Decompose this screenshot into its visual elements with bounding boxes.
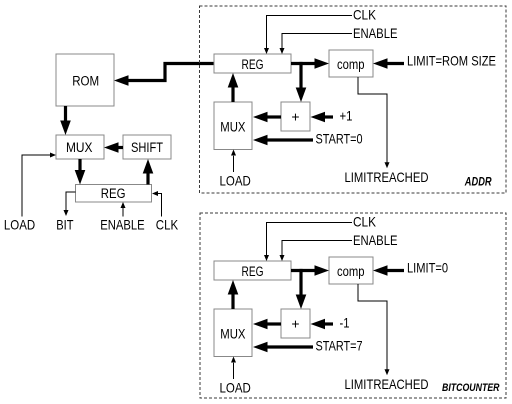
wire: ROM data out down to MUX xyxy=(60,106,71,135)
wire: -1 constant into adder xyxy=(311,319,334,330)
wire: LOAD input to MUX select xyxy=(22,153,56,217)
MUX box (BITCOUNTER source select) xyxy=(214,309,252,357)
ADDR module dashed boundary xyxy=(200,6,507,193)
MUX box (ADDR source select) xyxy=(214,102,252,150)
svg-text:SHIFT: SHIFT xyxy=(131,140,163,155)
wire: ADDR MUX out up to REG xyxy=(228,73,239,102)
REG box (shift register) xyxy=(76,185,152,203)
BITCOUNTER module dashed boundary xyxy=(200,213,506,398)
svg-text:START=7: START=7 xyxy=(316,338,363,354)
svg-text:REG: REG xyxy=(242,57,264,72)
svg-text:MUX: MUX xyxy=(220,120,245,135)
svg-text:LOAD: LOAD xyxy=(4,217,35,233)
wire: SHIFT out to MUX input xyxy=(104,142,123,153)
wire: BITCOUNTER comp out to LIMITREACHED xyxy=(358,284,390,375)
MUX box (shifter input select) xyxy=(56,135,104,159)
wire: LOAD to BITCOUNTER MUX select xyxy=(231,357,236,380)
svg-text:ROM: ROM xyxy=(72,74,99,89)
comp box (ADDR comparator) xyxy=(329,50,373,77)
svg-text:ENABLE: ENABLE xyxy=(353,25,398,41)
svg-text:BIT: BIT xyxy=(56,217,74,233)
svg-text:REG: REG xyxy=(101,186,126,201)
svg-text:BITCOUNTER: BITCOUNTER xyxy=(442,382,500,394)
wire: ENABLE input up to REG xyxy=(121,202,126,217)
wire: REG feedback up to SHIFT xyxy=(143,159,154,185)
wire: adder out to BITCOUNTER MUX xyxy=(253,319,281,330)
ROM box xyxy=(56,54,114,106)
svg-text:START=0: START=0 xyxy=(316,131,363,147)
wire: START=7 constant into BITCOUNTER MUX xyxy=(253,342,313,353)
adder box + (BITCOUNTER) xyxy=(281,309,310,338)
svg-text:CLK: CLK xyxy=(353,213,377,229)
wire: BITCOUNTER bus branch down to adder xyxy=(296,269,307,309)
wire: +1 constant into adder xyxy=(311,112,334,123)
wire: BITCOUNTER REG out to comp xyxy=(291,265,329,276)
wire: ENABLE to ADDR REG xyxy=(280,34,353,55)
svg-text:LIMITREACHED: LIMITREACHED xyxy=(345,169,429,185)
wire: ENABLE to BITCOUNTER REG xyxy=(280,241,353,262)
svg-text:LIMIT=0: LIMIT=0 xyxy=(407,260,448,276)
comp box (BITCOUNTER comparator) xyxy=(329,257,373,284)
wire: ADDR REG output to ROM address input xyxy=(114,64,214,86)
wire: ADDR REG out to comp xyxy=(291,58,329,69)
wire: adder out to ADDR MUX xyxy=(253,112,281,123)
REG box (BITCOUNTER register) xyxy=(214,261,291,280)
wire: CLK input to REG xyxy=(152,191,162,217)
svg-text:comp: comp xyxy=(337,264,365,279)
wire: LIMIT=ROM SIZE constant into comp xyxy=(373,58,404,69)
wire: REG to BIT output xyxy=(64,192,76,216)
wire: LOAD to ADDR MUX select xyxy=(231,150,236,173)
svg-text:comp: comp xyxy=(337,57,365,72)
svg-text:ENABLE: ENABLE xyxy=(353,232,398,248)
svg-text:LIMITREACHED: LIMITREACHED xyxy=(345,376,429,392)
svg-text:+1: +1 xyxy=(340,108,353,124)
adder box + (ADDR) xyxy=(281,102,310,131)
svg-text:ENABLE: ENABLE xyxy=(100,217,145,233)
svg-text:CLK: CLK xyxy=(156,217,179,233)
REG box (ADDR register) xyxy=(214,54,291,73)
svg-text:LOAD: LOAD xyxy=(220,172,251,188)
svg-text:LOAD: LOAD xyxy=(220,379,251,395)
wire: MUX out down to REG xyxy=(75,159,86,185)
wire: CLK to ADDR REG xyxy=(264,16,352,55)
SHIFT box xyxy=(123,135,171,159)
wire: ADDR bus branch down to adder xyxy=(296,62,307,102)
svg-text:MUX: MUX xyxy=(66,140,93,155)
svg-text:+: + xyxy=(291,316,299,332)
svg-text:CLK: CLK xyxy=(353,6,377,22)
svg-text:REG: REG xyxy=(242,264,264,279)
svg-text:MUX: MUX xyxy=(220,327,245,342)
wire: CLK to BITCOUNTER REG xyxy=(264,223,352,262)
wire: ADDR comp out to LIMITREACHED xyxy=(358,77,390,168)
svg-text:ADDR: ADDR xyxy=(464,176,492,188)
wire: LIMIT=0 constant into comp xyxy=(373,265,404,276)
wire: START=0 constant into ADDR MUX xyxy=(253,135,313,146)
svg-text:LIMIT=ROM SIZE: LIMIT=ROM SIZE xyxy=(407,53,496,69)
svg-text:-1: -1 xyxy=(340,315,350,331)
wire: BITCOUNTER MUX out up to REG xyxy=(228,280,239,309)
svg-text:+: + xyxy=(291,109,299,125)
